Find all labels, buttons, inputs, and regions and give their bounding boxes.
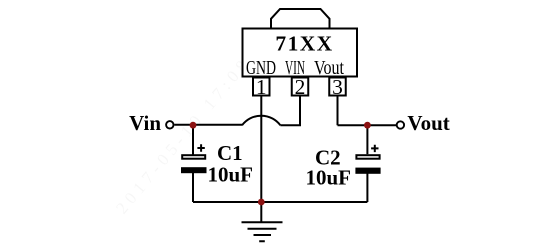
wire C1 bottom stub [192, 173, 194, 202]
capacitor C1 top plate [182, 155, 205, 159]
capacitor C1 plus sign [197, 144, 204, 151]
pin 2 box [292, 78, 309, 96]
svg-text:10uF: 10uF [208, 163, 254, 187]
wire C2 bottom stub [366, 174, 368, 203]
svg-text:1: 1 [256, 75, 267, 99]
capacitor C2 plus sign [371, 145, 378, 152]
wire hop over GND wire [242, 116, 280, 126]
wire pin3 Vout lead [338, 97, 397, 126]
svg-text:C1: C1 [217, 141, 243, 165]
wire bottom rail [193, 201, 367, 203]
watermark [112, 29, 275, 218]
wire C2 top stub [366, 125, 368, 154]
node junction dot C2 [364, 122, 371, 129]
svg-text:Vin: Vin [129, 111, 161, 135]
terminal Vin circle [166, 121, 173, 128]
capacitor C1 bottom plate [181, 167, 207, 173]
wire Vin input horizontal [174, 124, 242, 126]
node junction dot C1 [190, 122, 197, 129]
svg-text:3: 3 [332, 75, 343, 99]
regulator U1 package tab [271, 9, 330, 28]
regulator U1 body [243, 29, 358, 77]
node junction dot ground rail [258, 199, 265, 206]
pin 1 box [253, 78, 270, 96]
capacitor C2 top plate [356, 155, 379, 159]
svg-text:71XX: 71XX [275, 32, 333, 56]
svg-text:Vout: Vout [407, 111, 449, 135]
wire pin1 GND vertical down to ground [260, 97, 262, 223]
pin 3 box [329, 78, 346, 96]
svg-text:10uF: 10uF [306, 166, 352, 190]
svg-text:2: 2 [295, 75, 306, 99]
capacitor C2 bottom plate [355, 168, 380, 174]
ground symbol [242, 222, 283, 241]
terminal Vout circle [397, 121, 404, 128]
wire pin2 VIN lead [280, 97, 300, 126]
wire C1 top stub [192, 125, 194, 155]
